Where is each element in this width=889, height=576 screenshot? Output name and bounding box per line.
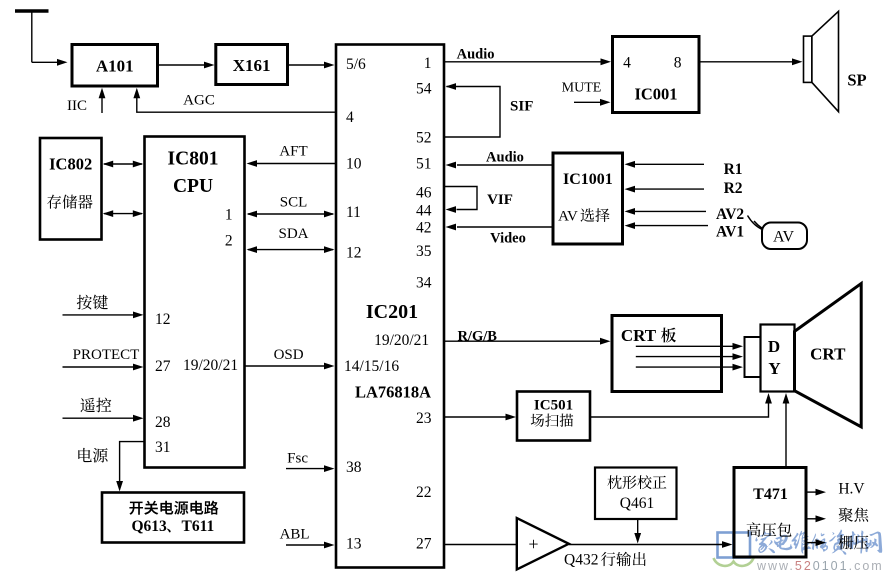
label yaokong remote: [80, 398, 111, 413]
wire antenna vertical: [31, 10, 33, 63]
wire AGC from IC201 pin 4 to A101: [137, 95, 336, 112]
svg-text:31: 31: [155, 439, 171, 456]
filter X161: [216, 45, 288, 85]
svg-text:Audio: Audio: [486, 150, 524, 166]
AV switch IC1001: [553, 153, 623, 244]
CRT neck connector: [745, 337, 761, 377]
label jujiao focus: [839, 508, 869, 522]
svg-text:44: 44: [416, 202, 432, 219]
svg-text:IC201: IC201: [366, 301, 418, 323]
svg-text:12: 12: [346, 244, 362, 261]
svg-text:11: 11: [346, 204, 361, 221]
arrowhead T471 into DY: [783, 393, 790, 404]
wire PROTECT to pin 27: [63, 366, 136, 368]
svg-text:27: 27: [155, 358, 171, 375]
arrowhead AGC into A101: [133, 88, 140, 99]
svg-text:5/6: 5/6: [346, 56, 366, 73]
svg-text:1: 1: [225, 206, 233, 223]
svg-text:AV2: AV2: [716, 206, 744, 223]
wire X161 to IC201 pin 5/6: [289, 64, 326, 66]
svg-text:AGC: AGC: [183, 93, 215, 109]
svg-text:VIF: VIF: [487, 192, 513, 208]
svg-text:42: 42: [416, 220, 432, 237]
wire SIF loop pins 54-52: [444, 87, 500, 138]
wire H.V output: [806, 491, 817, 493]
label dianyuan power: [78, 448, 107, 463]
label kaiguan dianyuan dianlu: [129, 501, 218, 515]
svg-text:22: 22: [416, 484, 432, 501]
wire OSD: [245, 365, 327, 367]
wire SDA: [248, 249, 333, 251]
wire R2 input: [634, 188, 704, 190]
svg-text:R1: R1: [724, 161, 743, 178]
arrowhead SIF into pin 54: [446, 83, 457, 90]
svg-text:SIF: SIF: [510, 99, 533, 115]
svg-text:38: 38: [346, 459, 362, 476]
line output amp Q432: [517, 518, 569, 570]
svg-text:AV1: AV1: [716, 223, 744, 240]
wire IC501 to DY: [590, 400, 769, 417]
svg-text:28: 28: [155, 414, 171, 431]
svg-text:R2: R2: [724, 180, 743, 197]
wire Q432 to T471: [569, 544, 724, 546]
label shanya grid: [839, 535, 869, 549]
svg-text:Video: Video: [490, 231, 526, 247]
svg-text:54: 54: [416, 80, 432, 97]
svg-text:SP: SP: [847, 71, 866, 90]
wire A101 to X161: [159, 64, 205, 66]
svg-text:www.520101.com: www.520101.com: [756, 559, 884, 573]
svg-text:T611: T611: [182, 518, 215, 535]
arrowhead into A101: [57, 59, 68, 66]
memory IC802: [40, 138, 102, 240]
bus wire IC802-IC801 lower: [104, 213, 142, 215]
wire Video IC1001 to pin 42: [457, 226, 553, 228]
wire R1 input: [634, 163, 704, 165]
svg-text:Audio: Audio: [457, 47, 495, 63]
AV bubble tail: [748, 216, 764, 231]
svg-text:LA76818A: LA76818A: [355, 382, 431, 401]
watermark text jiadian weixiu ziliao wang: [755, 530, 882, 555]
svg-text:AFT: AFT: [279, 144, 307, 160]
arrowhead VIF into pin 44: [446, 206, 457, 213]
arrowhead into IC201 pin 5/6: [324, 62, 335, 69]
svg-text:52: 52: [416, 129, 432, 146]
svg-text:10: 10: [346, 155, 362, 172]
svg-text:IC801: IC801: [168, 149, 219, 170]
IC U201 LA76818A main chip: [336, 45, 444, 568]
wire RGB to CRT board: [444, 340, 603, 342]
wire pin 23 to IC501: [444, 416, 509, 418]
arrowhead IC501 into DY: [765, 393, 772, 404]
wire AV1 input: [634, 225, 708, 227]
svg-text:4: 4: [623, 55, 631, 72]
wire grid output: [806, 542, 817, 544]
svg-text:SDA: SDA: [278, 226, 308, 242]
svg-text:2: 2: [225, 232, 233, 249]
arrowhead into power supply box: [116, 481, 123, 492]
svg-text:IC001: IC001: [634, 85, 677, 104]
wire pin 31 to power supply: [120, 442, 145, 484]
wire IIC into A101: [101, 95, 103, 113]
svg-text:Q461: Q461: [620, 495, 654, 512]
svg-text:SCL: SCL: [280, 195, 308, 211]
svg-text:Q432: Q432: [564, 552, 598, 569]
svg-text:CRT: CRT: [810, 345, 846, 364]
label gaoyabao: [747, 522, 792, 536]
svg-text:Fsc: Fsc: [287, 451, 308, 467]
antenna: [15, 9, 49, 12]
svg-text:35: 35: [416, 243, 432, 260]
label anjian keys: [77, 295, 108, 310]
wire Audio IC1001 to pin 51: [457, 164, 553, 166]
audio amp IC001: [613, 37, 700, 113]
svg-text:CPU: CPU: [173, 176, 213, 197]
label chang saomiao: [531, 414, 573, 427]
wire VIF loop pins 46-44: [444, 187, 477, 210]
bus wire IC802-IC801 upper: [104, 163, 142, 165]
wire remote to pin 28: [63, 417, 136, 419]
wire AFT: [256, 163, 336, 165]
label memory cunchuqi: [47, 195, 92, 209]
svg-text:PROTECT: PROTECT: [73, 347, 140, 363]
svg-text:46: 46: [416, 184, 432, 201]
svg-text:AV: AV: [558, 209, 578, 225]
svg-text:+: +: [528, 534, 538, 554]
wire Fsc to pin 38: [286, 468, 326, 470]
deflection yoke DY: [761, 325, 795, 392]
svg-text:23: 23: [416, 410, 432, 427]
svg-text:34: 34: [416, 275, 432, 292]
svg-text:Y: Y: [768, 359, 780, 378]
wire RGB line 2: [636, 356, 736, 358]
svg-text:19/20/21: 19/20/21: [183, 357, 238, 374]
wire IC001 to speaker: [699, 61, 795, 63]
wire keys to pin 12: [63, 314, 136, 316]
arrowhead Q461 to drive line: [634, 533, 641, 544]
svg-text:13: 13: [346, 535, 362, 552]
CRT funnel: [795, 284, 862, 427]
svg-text:X161: X161: [233, 56, 271, 75]
svg-text:51: 51: [416, 155, 432, 172]
svg-text:19/20/21: 19/20/21: [374, 332, 429, 349]
pincushion correction box: [595, 468, 677, 520]
svg-text:4: 4: [346, 109, 354, 126]
arrowhead IIC into A101: [99, 88, 106, 99]
svg-text:T471: T471: [753, 486, 788, 503]
svg-text:ABL: ABL: [280, 527, 310, 543]
wire T471 to DY: [785, 400, 787, 468]
svg-text:AV: AV: [773, 229, 794, 246]
svg-text:D: D: [768, 337, 780, 356]
svg-text:1: 1: [424, 55, 432, 72]
svg-text:MUTE: MUTE: [562, 81, 602, 96]
wire RGB line 3: [636, 366, 736, 368]
watermark logo book: [718, 533, 751, 558]
svg-text:IC1001: IC1001: [563, 171, 613, 188]
svg-text:12: 12: [155, 311, 171, 328]
svg-text:IC802: IC802: [49, 155, 92, 174]
wire AV2 input: [634, 210, 706, 212]
wire antenna to A101: [32, 61, 60, 63]
wire pin 27 to Q432: [444, 544, 516, 546]
switching power supply box: [102, 493, 244, 543]
svg-text:A101: A101: [96, 56, 134, 75]
svg-text:27: 27: [416, 535, 432, 552]
flyback transformer T471: [734, 468, 806, 558]
CRT board box: [612, 316, 722, 392]
wire focus output: [806, 518, 817, 520]
tuner A101: [72, 45, 158, 87]
wire Q461 down: [637, 519, 639, 536]
wire SCL: [248, 213, 333, 215]
AV bubble: [762, 223, 807, 250]
vertical deflection IC501: [517, 392, 590, 441]
svg-text:8: 8: [674, 55, 682, 72]
svg-text:OSD: OSD: [274, 347, 304, 363]
svg-text:Q613: Q613: [132, 518, 168, 535]
svg-text:CRT: CRT: [621, 326, 657, 345]
arrowhead into X161: [204, 62, 215, 69]
wire pin 1 Audio to IC001: [444, 61, 603, 63]
wire ABL to pin 13: [286, 544, 326, 546]
svg-text:H.V: H.V: [838, 480, 865, 497]
label zhenxing jiaozheng: [607, 475, 666, 489]
svg-text:14/15/16: 14/15/16: [344, 358, 399, 375]
wire RGB line 1: [636, 345, 736, 347]
speaker SP: [804, 36, 812, 82]
svg-text:IIC: IIC: [67, 98, 87, 114]
CPU IC801: [145, 137, 245, 468]
svg-text:IC501: IC501: [534, 398, 573, 414]
wire MUTE into IC001: [574, 101, 602, 103]
